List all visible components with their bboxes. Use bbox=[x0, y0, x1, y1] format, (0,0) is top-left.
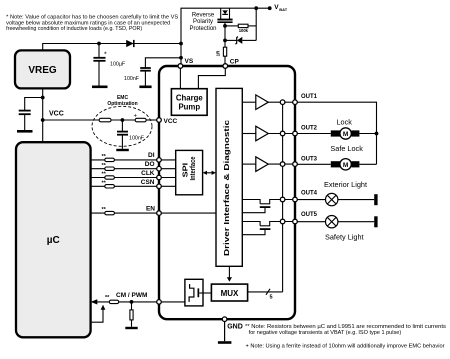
svg-text:Optimization: Optimization bbox=[107, 101, 137, 107]
svg-text:100nF: 100nF bbox=[124, 76, 140, 82]
svg-text:M: M bbox=[343, 162, 348, 169]
svg-text:freewheeling condition of indu: freewheeling condition of inductive load… bbox=[6, 26, 142, 32]
svg-text:5: 5 bbox=[270, 295, 273, 301]
svg-text:Protection: Protection bbox=[189, 26, 216, 32]
svg-text:CLK: CLK bbox=[141, 170, 155, 177]
svg-text:Safety Light: Safety Light bbox=[325, 232, 364, 241]
svg-text:VCC: VCC bbox=[49, 111, 64, 118]
svg-text:VCC: VCC bbox=[164, 118, 178, 125]
svg-text:Reverse: Reverse bbox=[192, 13, 215, 19]
svg-text:Pump: Pump bbox=[178, 103, 200, 112]
svg-text:VS: VS bbox=[185, 58, 194, 65]
svg-text:BAT: BAT bbox=[279, 7, 287, 12]
svg-text:MUX: MUX bbox=[221, 289, 239, 298]
svg-text:EN: EN bbox=[146, 205, 155, 212]
svg-text:CM / PWM: CM / PWM bbox=[116, 292, 147, 299]
svg-text:Interface: Interface bbox=[188, 157, 197, 181]
svg-text:CP: CP bbox=[230, 59, 240, 66]
svg-text:Charge: Charge bbox=[176, 94, 204, 103]
svg-text:Safe Lock: Safe Lock bbox=[330, 144, 363, 153]
svg-text:µC: µC bbox=[47, 235, 60, 246]
svg-text:OUT2: OUT2 bbox=[301, 125, 318, 131]
svg-text:DI: DI bbox=[148, 152, 155, 159]
svg-text:100nF: 100nF bbox=[129, 135, 145, 141]
svg-text:*: * bbox=[104, 52, 107, 59]
svg-text:Driver Interface & Diagnostic: Driver Interface & Diagnostic bbox=[222, 120, 231, 256]
svg-text:Exterior Light: Exterior Light bbox=[324, 180, 367, 189]
svg-text:CSN: CSN bbox=[141, 179, 155, 186]
svg-text:+: + bbox=[134, 114, 138, 120]
svg-text:for negative voltage transient: for negative voltage transients at VBAT … bbox=[249, 330, 402, 336]
svg-text:M: M bbox=[343, 131, 348, 138]
svg-text:100k: 100k bbox=[239, 28, 249, 33]
svg-text:GND: GND bbox=[227, 324, 243, 331]
svg-text:100µF: 100µF bbox=[110, 62, 126, 68]
svg-text:VREG: VREG bbox=[28, 65, 57, 76]
svg-text:1R: 1R bbox=[215, 50, 220, 57]
svg-text:OUT5: OUT5 bbox=[301, 212, 318, 218]
svg-text:OUT1: OUT1 bbox=[301, 94, 318, 100]
svg-text:DO: DO bbox=[145, 161, 155, 168]
svg-text:OUT4: OUT4 bbox=[301, 190, 318, 196]
svg-text:Lock: Lock bbox=[337, 118, 353, 127]
svg-text:+ Note: Using a ferrite instea: + Note: Using a ferrite instead of 10ohm… bbox=[246, 343, 445, 349]
svg-text:OUT3: OUT3 bbox=[301, 156, 318, 162]
svg-text:Polarity: Polarity bbox=[193, 19, 213, 25]
